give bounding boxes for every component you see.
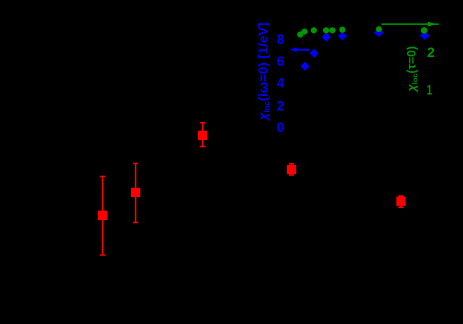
error bar B [133, 164, 138, 223]
svg-text:1: 1 [427, 82, 433, 98]
red square A [98, 211, 107, 220]
error bar D [289, 164, 294, 175]
green circle 1 [297, 31, 303, 37]
inset frame (black, invisible) [286, 16, 438, 128]
green circle 3 [311, 27, 317, 33]
svg-text:6: 6 [277, 54, 284, 69]
red square E [396, 197, 405, 206]
green circle 4 [323, 27, 329, 33]
red square B [131, 188, 140, 197]
blue diamond 2 [310, 49, 319, 58]
blue diamond 1 [301, 62, 310, 71]
svg-text:2: 2 [427, 44, 435, 60]
red square C [198, 131, 207, 140]
blue diamond 4 [338, 32, 347, 41]
green circle 5 [329, 27, 335, 33]
svg-text:2: 2 [277, 98, 284, 113]
green circle 6 [339, 27, 345, 33]
main plot axes frame (black, invisible on black background) [60, 15, 450, 285]
blue diamond 5 [374, 28, 384, 36]
blue arrow pointing left toward left axis [290, 47, 310, 52]
error bar C [200, 123, 205, 147]
svg-text:0: 0 [277, 120, 284, 135]
red square D [287, 165, 296, 174]
green circle 2 [301, 29, 307, 35]
blue diamond 3 [322, 33, 331, 42]
error bar A [100, 176, 105, 255]
green circle 7 [376, 26, 382, 32]
svg-text:χloc(τ=0): χloc(τ=0) [405, 46, 420, 93]
green arrow pointing right toward right axis [381, 22, 438, 27]
green circle 8 [421, 27, 428, 34]
error bar E [398, 196, 403, 207]
blue diamond 6 [420, 31, 430, 39]
svg-text:8: 8 [277, 32, 285, 47]
svg-text:4: 4 [277, 76, 285, 91]
